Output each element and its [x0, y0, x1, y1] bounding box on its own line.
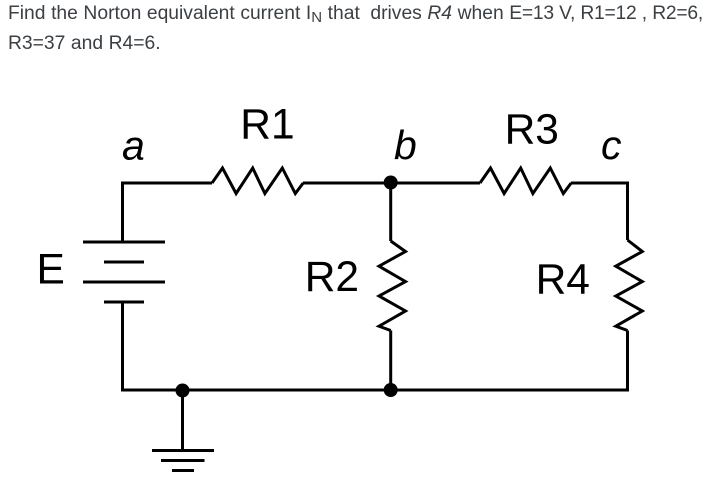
svg-text:a: a — [122, 123, 145, 169]
battery E plate 3 long — [83, 281, 165, 284]
ground bar 2 — [161, 459, 205, 462]
svg-text:c: c — [601, 122, 622, 168]
wire right vertical upper (node c to R4) — [626, 182, 629, 241]
wire ground stem — [181, 390, 184, 450]
wire node b down to R2 — [389, 183, 392, 241]
wire R2 to bottom node — [389, 331, 392, 391]
battery E plate 1 long — [83, 241, 165, 244]
question text — [8, 0, 723, 59]
junction node b dot — [384, 176, 398, 190]
wire left vertical lower (battery to bottom wire) — [121, 302, 124, 390]
battery E plate 4 short — [104, 301, 144, 304]
junction bottom-middle dot — [384, 383, 398, 397]
ground bar 1 — [152, 449, 214, 452]
svg-text:b: b — [394, 122, 417, 168]
wire left vertical upper (node a down to battery) — [121, 182, 124, 243]
wire bottom horizontal — [121, 389, 628, 392]
wire top-left horizontal (node a to R1) — [121, 182, 212, 185]
wire top-right horizontal (R3 to node c corner) — [571, 182, 628, 185]
resistor R2 — [379, 241, 406, 331]
svg-text:R2: R2 — [305, 254, 359, 301]
wire R4 to bottom-right corner — [626, 331, 629, 392]
svg-text:R4: R4 — [536, 256, 590, 303]
junction bottom-left dot (ground tap) — [176, 384, 190, 398]
battery E plate 2 short — [104, 261, 144, 264]
svg-text:R3: R3 — [505, 106, 559, 153]
resistor R3 — [480, 168, 571, 194]
ground bar 3 — [172, 469, 194, 472]
resistor R1 — [212, 168, 303, 194]
resistor R4 — [616, 240, 643, 331]
svg-text:E: E — [37, 246, 65, 293]
svg-text:R1: R1 — [240, 102, 294, 149]
wire top-middle horizontal (R1 to R3 through node b) — [303, 182, 480, 185]
